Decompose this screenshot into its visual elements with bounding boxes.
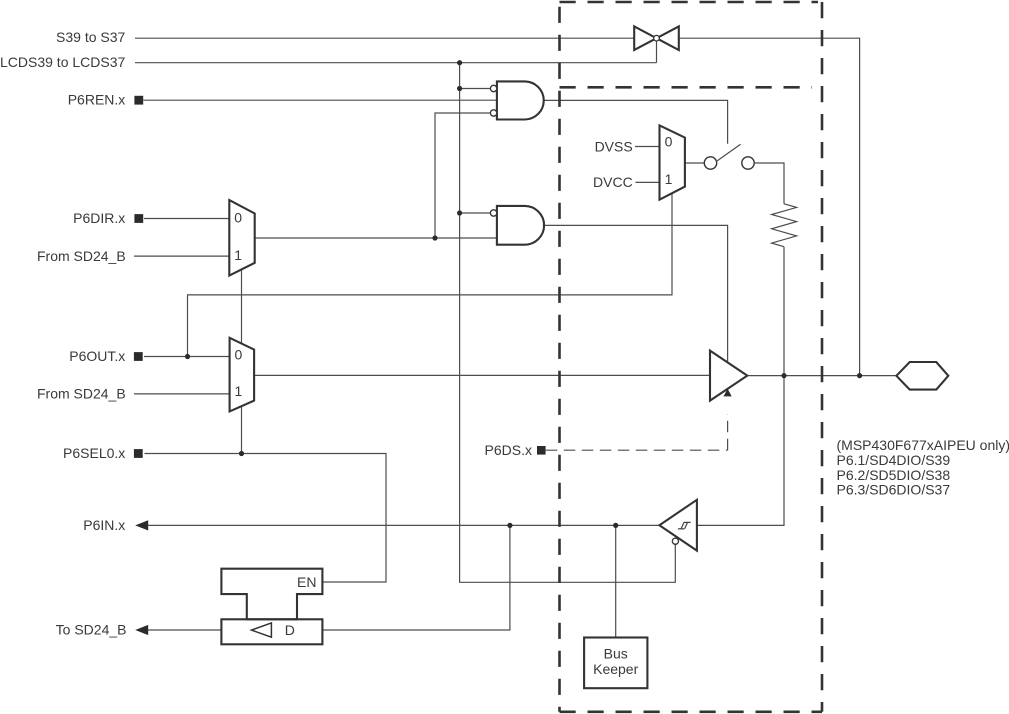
analog switch S39 right triangle (657, 26, 679, 50)
svg-text:P6OUT.x: P6OUT.x (69, 348, 125, 364)
mux M1 P6DIR/SD24 (229, 200, 254, 276)
switch SW1 pole contact (704, 157, 716, 169)
terminal square P6DIR.x (134, 214, 143, 223)
pad hexagon (896, 362, 948, 390)
svg-text:0: 0 (665, 133, 673, 149)
terminal square P6OUT.x (134, 352, 143, 361)
analog switch gate bubble (654, 35, 660, 41)
svg-text:1: 1 (235, 383, 243, 399)
wire From SD24_B to DIR mux (134, 255, 229, 257)
arrowhead P6IN.x (135, 520, 148, 530)
terminal square P6SEL0.x (134, 449, 143, 458)
svg-text:(MSP430F677xAIPEU only): (MSP430F677xAIPEU only) (837, 437, 1009, 453)
svg-text:To SD24_B: To SD24_B (56, 622, 127, 638)
svg-text:S39 to S37: S39 to S37 (56, 29, 125, 45)
node P6OUT tap (185, 354, 190, 359)
terminal square P6REN.x (134, 96, 143, 105)
wire OUT mux output to buffer (254, 374, 710, 376)
svg-text:DVCC: DVCC (593, 174, 633, 190)
svg-text:From SD24_B: From SD24_B (37, 386, 126, 402)
wire switch throw to resistor (755, 163, 784, 204)
node LCDS/LCD bus junction (457, 60, 462, 65)
wire P6SEL0.x to EN (145, 454, 387, 583)
wire To SD24_B (148, 629, 221, 631)
and-gate U1 (REN logic) (497, 81, 544, 119)
dashed inner divider (560, 86, 813, 89)
wire P6OUT branch to pull mux select (188, 194, 673, 357)
node AND2 top tap (457, 210, 462, 215)
svg-text:P6REN.x: P6REN.x (68, 91, 126, 107)
svg-text:From SD24_B: From SD24_B (37, 248, 126, 264)
svg-text:P6.1/SD4DIO/S39: P6.1/SD4DIO/S39 (837, 452, 951, 468)
wire buffer output to pad (748, 375, 897, 377)
svg-text:P6DIR.x: P6DIR.x (73, 210, 125, 226)
svg-text:Bus: Bus (604, 645, 628, 661)
wire LCDS to switch gate vertical (656, 41, 658, 63)
mux M2 P6OUT/SD24 (230, 338, 255, 412)
wire D latch output (322, 525, 510, 630)
mux M3 DVSS/DVCC pull select (660, 125, 685, 199)
arrowhead To SD24_B (135, 625, 148, 635)
svg-text:P6SEL0.x: P6SEL0.x (63, 445, 125, 461)
svg-text:P6DS.x: P6DS.x (485, 442, 532, 458)
P6DS.x arrowhead (724, 389, 732, 397)
svg-text:1: 1 (665, 171, 673, 187)
node AND1 top tap (457, 86, 462, 91)
wire input buffer enable bubble drop (674, 544, 676, 546)
output buffer U3 (710, 351, 747, 401)
svg-text:0: 0 (235, 347, 243, 363)
wire pull mux output to switch pole (685, 162, 704, 164)
wire S39 right segment to pad vertical (679, 38, 860, 375)
svg-text:1: 1 (234, 247, 242, 263)
wire P6REN.x (143, 99, 497, 101)
latch EN block (221, 569, 322, 620)
node pad-S39 junction (857, 373, 862, 378)
latch D read-tap triangle (252, 623, 272, 637)
U1 input bubble top (490, 85, 496, 91)
analog switch S39 left triangle (634, 26, 679, 50)
and-gate U2 (DIR logic) (497, 206, 544, 245)
P6DS.x dashed drive-strength line (546, 414, 728, 450)
node DIR output tap (432, 235, 437, 240)
svg-text:P6.2/SD5DIO/S38: P6.2/SD5DIO/S38 (837, 467, 951, 483)
wire P6IN.x (148, 524, 659, 526)
wire LCDS39 horizontal (135, 62, 657, 64)
wire AND1 top input (460, 88, 491, 90)
latch D block (221, 619, 322, 644)
U4 enable bubble (672, 538, 678, 544)
wire AND2 top input (460, 212, 491, 214)
bus keeper box (584, 638, 647, 689)
U4 hysteresis symbol (678, 522, 691, 529)
wire AND2 output to buffer enable (543, 225, 728, 361)
wire resistor bottom through pad node to input buffer (697, 247, 784, 526)
svg-text:D: D (285, 622, 295, 638)
wire select chain DIR mux (241, 269, 243, 344)
wire select chain below OUT mux (241, 406, 243, 453)
dashed module boundary outer box (560, 2, 823, 712)
node pad-resistor junction (781, 373, 786, 378)
U1 input bubble bottom (490, 110, 496, 116)
svg-text:EN: EN (297, 574, 316, 590)
svg-text:Keeper: Keeper (593, 661, 638, 677)
wire P6OUT.x input (144, 356, 230, 358)
svg-text:P6IN.x: P6IN.x (83, 517, 125, 533)
wire AND1 output to switch control (543, 100, 728, 143)
svg-text:DVSS: DVSS (595, 138, 633, 154)
wire DVCC input (636, 181, 660, 183)
wire DVSS input (635, 146, 660, 148)
node P6IN-keeper junction (613, 523, 618, 528)
switch SW1 throw contact (742, 157, 754, 169)
node P6SEL tap (239, 451, 244, 456)
switch SW1 lever (716, 144, 741, 162)
terminal square P6DS.x (537, 446, 546, 455)
input schmitt buffer U4 (659, 500, 697, 551)
wire AND1 bottom input (435, 113, 490, 238)
svg-text:0: 0 (234, 209, 242, 225)
node P6IN-D junction (507, 523, 512, 528)
wire S39 left segment (135, 37, 634, 39)
wire bus keeper (615, 525, 617, 637)
svg-text:LCDS39 to LCDS37: LCDS39 to LCDS37 (0, 54, 126, 70)
resistor R1 pullup/pulldown (772, 204, 797, 247)
svg-text:P6.3/SD6DIO/S37: P6.3/SD6DIO/S37 (837, 482, 951, 498)
wire DIR mux output to AND2 (255, 237, 497, 239)
wire LCD vertical bus to input-buffer enable (460, 63, 676, 583)
U2 input bubble top (490, 210, 496, 216)
wire From SD24_B to OUT mux (134, 393, 230, 395)
wire P6DIR.x input (144, 218, 229, 220)
